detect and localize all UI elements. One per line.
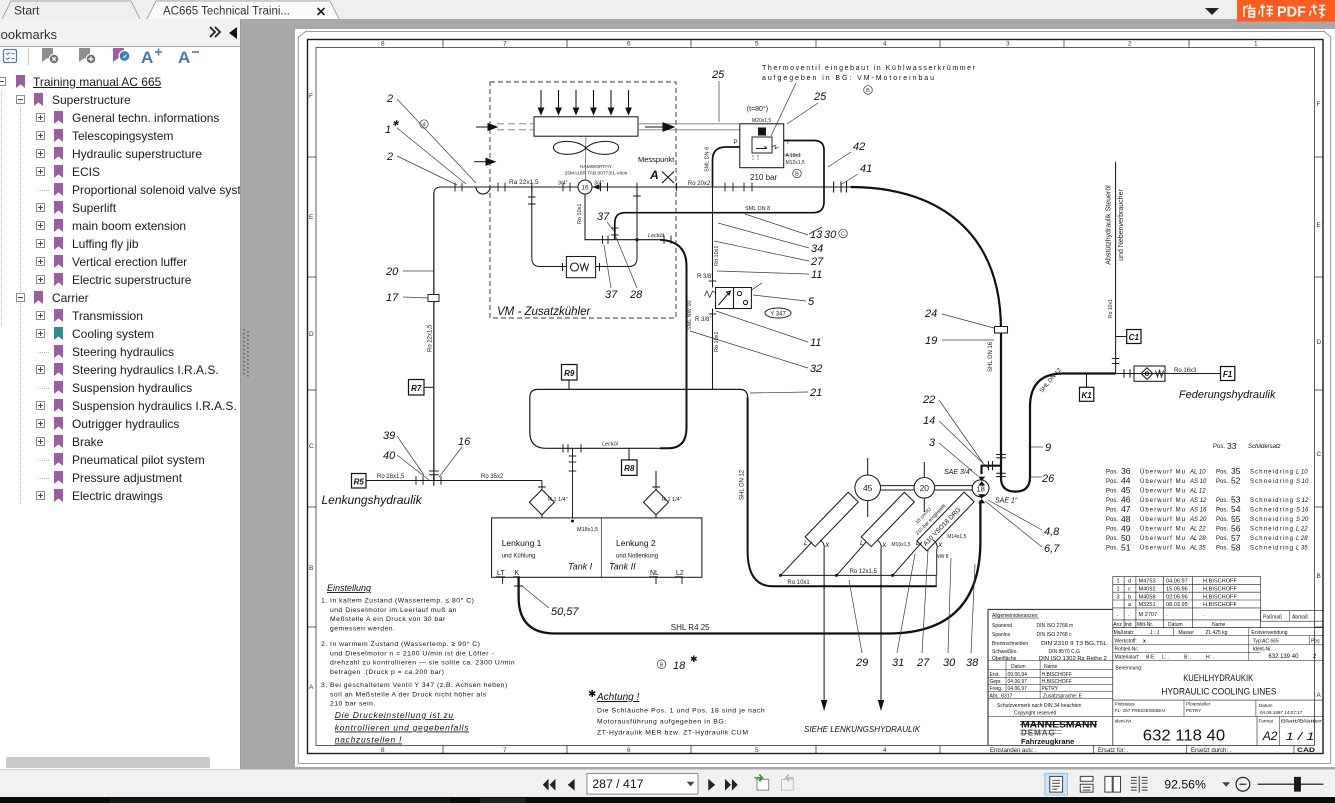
- svg-text:Pos.: Pos.: [1216, 479, 1228, 485]
- svg-text:Schneidring: Schneidring: [1250, 517, 1293, 523]
- svg-text:VM - Zusatzkühler: VM - Zusatzkühler: [497, 306, 591, 318]
- svg-text:DIN 8570 C,G: DIN 8570 C,G: [1049, 649, 1081, 655]
- svg-text:Lenkungshydraulik: Lenkungshydraulik: [322, 493, 423, 507]
- svg-text:F: F: [309, 93, 313, 100]
- svg-text:d: d: [422, 122, 425, 128]
- svg-text:Schneidring: Schneidring: [1250, 527, 1293, 533]
- svg-text:40: 40: [383, 450, 396, 462]
- svg-text:2: 2: [386, 93, 393, 105]
- svg-text:Abmaß: Abmaß: [1292, 615, 1308, 621]
- svg-text:21.425 kg: 21.425 kg: [1206, 630, 1228, 636]
- svg-text:A 10x1: A 10x1: [786, 153, 802, 159]
- svg-text:16: 16: [458, 436, 471, 448]
- label M18x1,5: [577, 527, 598, 533]
- svg-text:L2: L2: [676, 570, 684, 577]
- svg-text:Allgemeintoleranzen:: Allgemeintoleranzen:: [992, 613, 1039, 619]
- labels 13 30 C / 34 / 27 / 11 / 11 / 32 / 21: [809, 229, 837, 399]
- svg-text:Spanend: Spanend: [992, 623, 1012, 629]
- svg-text:5: 5: [755, 747, 759, 754]
- svg-text:Oberfläche: Oberfläche: [992, 656, 1017, 662]
- svg-text:Mitt-Nr.: Mitt-Nr.: [1137, 622, 1153, 628]
- svg-text:(t=80°): (t=80°): [747, 105, 768, 113]
- svg-text:R5: R5: [354, 477, 365, 486]
- svg-text:24: 24: [924, 308, 937, 320]
- fittings: [603, 228, 672, 244]
- svg-text:1: 1: [1254, 41, 1258, 48]
- filter check unit: [1134, 366, 1165, 381]
- svg-text:H.BISCHOFF: H.BISCHOFF: [1203, 579, 1237, 585]
- svg-text:D: D: [309, 331, 314, 338]
- node R7: [409, 380, 434, 396]
- svg-text:Plotstatus: Plotstatus: [1115, 702, 1136, 707]
- svg-text:3/4”: 3/4”: [558, 181, 568, 187]
- svg-text:Pos.: Pos.: [1106, 469, 1118, 475]
- svg-text:8: 8: [381, 41, 385, 48]
- svg-text:D: D: [1317, 339, 1322, 346]
- svg-text:22: 22: [922, 394, 935, 406]
- svg-text:S 10: S 10: [1296, 479, 1309, 485]
- svg-text:betragen .(Druck p = ca.200 ba: betragen .(Druck p = ca.200 bar): [330, 669, 444, 676]
- svg-text:Tank II: Tank II: [609, 562, 636, 572]
- svg-text:Zusatzsprache: E: Zusatzsprache: E: [1043, 694, 1083, 700]
- labels 22 / 14 / 3: [922, 394, 936, 449]
- svg-text:Schildersatz: Schildersatz: [1248, 444, 1281, 450]
- svg-text:Pos.: Pos.: [1216, 469, 1228, 475]
- svg-text:3: 3: [929, 437, 936, 449]
- svg-text:b: b: [1128, 594, 1131, 600]
- svg-text:LT: LT: [497, 570, 505, 577]
- svg-text:.: .: [1166, 612, 1168, 618]
- svg-text:6: 6: [627, 41, 631, 48]
- Leckoel label: [648, 233, 665, 239]
- svg-text:1. In kaltem Zustand (Wasserte: 1. In kaltem Zustand (Wassertemp. ≤ 80° …: [321, 597, 474, 605]
- fittings on main line: [455, 182, 847, 193]
- svg-text:13: 13: [810, 229, 823, 241]
- left vertical pipe: [433, 193, 435, 481]
- label SHL DN 12 rotated: [740, 469, 746, 500]
- svg-text:H.BISCHOFF: H.BISCHOFF: [1203, 587, 1237, 593]
- steering supply line: [366, 480, 542, 482]
- bottom toolbar: [0, 769, 1335, 799]
- labels 39 / 40 / 16: [383, 430, 471, 462]
- svg-text:Pos.: Pos.: [1106, 517, 1118, 523]
- circle B ref: [793, 169, 802, 178]
- format / sheet: [1262, 729, 1315, 743]
- tree: [0, 19, 240, 768]
- svg-text:54: 54: [1231, 504, 1241, 514]
- svg-text:drehzahl zu kontrollieren — si: drehzahl zu kontrollieren — sie sollte c…: [330, 660, 515, 667]
- svg-text:45: 45: [863, 483, 873, 493]
- svg-text:Überwurf Mu: Überwurf Mu: [1140, 545, 1185, 552]
- plot status row: [1115, 702, 1323, 724]
- svg-text:X: X: [881, 542, 887, 549]
- svg-text:48: 48: [1121, 514, 1131, 524]
- labels 37 / 37 / 28: [597, 211, 643, 301]
- svg-text:aufgegeben in BG: VM-Motoreinb: aufgegeben in BG: VM-Motoreinbau: [762, 75, 934, 82]
- bypass loop: [528, 187, 641, 267]
- labels 29 31 27 30 38: [855, 657, 979, 669]
- svg-text:Typ:: Typ:: [1253, 639, 1262, 645]
- svg-text:Pos.: Pos.: [1106, 508, 1118, 514]
- label SML DN 8: [745, 206, 770, 212]
- svg-text:K1: K1: [1081, 391, 1092, 400]
- SHL DN 12 hose down: [748, 397, 937, 586]
- title block texts mid column: [1114, 630, 1228, 672]
- label Ro 10x1: [787, 580, 810, 586]
- svg-text:Spanlos: Spanlos: [992, 632, 1011, 638]
- svg-text:2: 2: [1128, 41, 1132, 48]
- svg-text:Tank I: Tank I: [568, 562, 593, 572]
- svg-text:M18x1,5: M18x1,5: [577, 527, 598, 533]
- svg-text:K: K: [515, 570, 520, 577]
- pump 20: [914, 462, 935, 512]
- solenoid valve Y347: [705, 283, 763, 309]
- svg-text:M14x1,5: M14x1,5: [947, 534, 966, 540]
- svg-text:Copyright reserved: Copyright reserved: [1014, 711, 1056, 717]
- svg-text:✱: ✱: [392, 119, 400, 128]
- svg-text:3: 3: [1117, 594, 1120, 600]
- svg-text:Überwurf Mu: Überwurf Mu: [1140, 497, 1185, 504]
- svg-text:B: B: [309, 565, 313, 572]
- svg-text:53: 53: [1231, 495, 1241, 505]
- svg-text:4: 4: [883, 41, 887, 48]
- svg-text:1: 1: [1117, 579, 1120, 585]
- svg-text:und Nebenverbraucher: und Nebenverbraucher: [1118, 189, 1125, 261]
- svg-text:d: d: [1128, 579, 1131, 585]
- svg-text:Blatt/Blätter: Blatt/Blätter: [1281, 719, 1323, 724]
- union fittings at pump 18 inlet: [989, 455, 1006, 477]
- svg-text:6: 6: [627, 747, 631, 754]
- svg-text:L 28: L 28: [1296, 536, 1308, 542]
- svg-text:19: 19: [925, 335, 937, 347]
- svg-text:und Dieselmotor n = 2100 U/min: und Dieselmotor n = 2100 U/min ist die L…: [330, 650, 494, 657]
- svg-text:M 2707: M 2707: [1139, 612, 1158, 618]
- svg-text:M12x1,5: M12x1,5: [786, 160, 805, 166]
- svg-text:28: 28: [629, 289, 643, 301]
- svg-text:26: 26: [1041, 473, 1055, 485]
- svg-text:SML DN 8: SML DN 8: [745, 206, 770, 212]
- svg-text:L 35: L 35: [1296, 546, 1308, 552]
- svg-text:Achtung !: Achtung !: [596, 692, 639, 703]
- SIEHE LENKUNGSHYDRAULIK: [804, 725, 921, 734]
- svg-text:x: x: [1143, 639, 1146, 645]
- label 17 and union fitting: [386, 292, 439, 304]
- svg-text:33: 33: [1227, 441, 1237, 451]
- svg-text:R 1 1/4”: R 1 1/4”: [548, 497, 568, 503]
- svg-text:Pos.: Pos.: [1216, 527, 1228, 533]
- svg-text:Pos.: Pos.: [1216, 498, 1228, 504]
- svg-text:14: 14: [923, 415, 935, 427]
- labels Ro 28x1,5 / Ro 35x2: [377, 474, 504, 480]
- svg-text:Schneidring: Schneidring: [1250, 508, 1293, 514]
- SHL R4 25 suction hose: [519, 501, 981, 634]
- svg-text:Lecköl: Lecköl: [648, 233, 665, 239]
- labels 9 / 26 / 4,8 / 6,7: [1041, 442, 1060, 555]
- svg-text:57: 57: [1231, 533, 1241, 543]
- svg-text:2: 2: [1313, 654, 1317, 660]
- svg-text:25: 25: [711, 69, 725, 81]
- Federungshydraulik label: [1179, 389, 1276, 401]
- svg-text:41: 41: [860, 163, 872, 175]
- svg-text:B: B: [866, 88, 870, 94]
- svg-text:AC 665: AC 665: [1261, 639, 1279, 645]
- svg-text:25: 25: [813, 91, 827, 103]
- VM-Zusatzkuehler label: [497, 306, 591, 318]
- labels 2 / 1* / 2: [385, 93, 400, 163]
- svg-text:S 20: S 20: [1296, 517, 1309, 523]
- svg-text:Messpunkt: Messpunkt: [638, 155, 675, 164]
- svg-text:R 3/8”: R 3/8”: [695, 317, 711, 323]
- svg-text:H.BISCHOFF: H.BISCHOFF: [1042, 672, 1072, 678]
- tank I / tank II: [492, 518, 702, 577]
- ident number: [1143, 728, 1225, 745]
- svg-text:37: 37: [597, 211, 610, 223]
- Messpunkt A: [638, 155, 675, 183]
- svg-text:NW 8: NW 8: [936, 554, 949, 560]
- tank ports: [497, 570, 684, 577]
- document canvas: [241, 22, 1335, 769]
- Einstellung notes: [327, 583, 371, 593]
- page trim marks: [298, 31, 1331, 763]
- svg-text:29: 29: [855, 657, 868, 669]
- svg-text:Ro 10x1: Ro 10x1: [1108, 299, 1114, 318]
- svg-text:Pos.: Pos.: [1106, 527, 1118, 533]
- svg-text:27: 27: [916, 657, 930, 669]
- svg-text:HAMWORTHY: HAMWORTHY: [580, 164, 613, 170]
- svg-text:8: 8: [381, 747, 385, 754]
- svg-text:Pos.: Pos.: [1106, 498, 1118, 504]
- svg-text:04.06.97: 04.06.97: [1008, 679, 1028, 685]
- drive shafts: [881, 486, 973, 490]
- control line to Y347: [712, 187, 714, 389]
- title block frame: [988, 609, 1323, 745]
- fitting on control line: [1112, 359, 1120, 364]
- svg-text:AC665 Technical Traini...: AC665 Technical Traini...: [163, 6, 290, 18]
- cooling air arrows: [538, 90, 631, 114]
- svg-text:Abstützhydraulik Steueröl: Abstützhydraulik Steueröl: [1106, 185, 1113, 265]
- svg-text:21: 21: [809, 387, 822, 399]
- svg-text:Überwurf Mu: Überwurf Mu: [1140, 478, 1185, 485]
- svg-text:und Kühlung: und Kühlung: [502, 554, 536, 560]
- svg-text:34: 34: [811, 243, 823, 255]
- hose couplings at pump 18: [978, 477, 985, 504]
- Abstuetzhydraulik control line: [1115, 162, 1117, 374]
- svg-text:und Notlenkung: und Notlenkung: [616, 554, 658, 560]
- svg-text:✱: ✱: [588, 689, 596, 700]
- svg-text:Ro 20x2: Ro 20x2: [688, 181, 711, 187]
- svg-text:42: 42: [853, 141, 865, 153]
- svg-text:M3251: M3251: [1139, 602, 1156, 608]
- splitter grip dots: [243, 329, 245, 375]
- svg-text:56: 56: [1231, 523, 1241, 533]
- svg-text:Ind: Ind: [1125, 622, 1132, 628]
- svg-text:Pos.: Pos.: [1216, 536, 1228, 542]
- svg-text:und Dieselmotor im Leerlauf mu: und Dieselmotor im Leerlauf muß an: [330, 607, 457, 614]
- svg-text:CAD: CAD: [1297, 748, 1316, 754]
- svg-text:A: A: [309, 684, 314, 691]
- svg-text:L 10: L 10: [1296, 469, 1308, 475]
- svg-text:R7: R7: [411, 384, 422, 393]
- svg-text:X: X: [937, 542, 943, 549]
- svg-text:3. Bei geschaltetem Ventil Y 3: 3. Bei geschaltetem Ventil Y 347 (z.B. A…: [321, 682, 508, 689]
- labels 42 / 41: [853, 141, 872, 175]
- axial piston unit 1: [805, 492, 858, 546]
- svg-text:AS 10: AS 10: [1189, 479, 1207, 485]
- svg-text:4,8: 4,8: [1044, 526, 1060, 538]
- svg-text:B-E: B-E: [1146, 655, 1155, 661]
- svg-text:E: E: [309, 214, 314, 221]
- svg-text:50,57: 50,57: [551, 606, 579, 618]
- air flow arrows: [474, 123, 674, 165]
- svg-text:Ro 22x1,5: Ro 22x1,5: [428, 324, 434, 352]
- svg-text:R9: R9: [564, 369, 575, 378]
- svg-text:9: 9: [1045, 442, 1051, 454]
- svg-text:Masse:: Masse:: [1178, 630, 1194, 636]
- svg-text:Schweißko.: Schweißko.: [992, 649, 1018, 655]
- title block texts left column: [990, 613, 1108, 717]
- svg-text:210 bar sein.: 210 bar sein.: [330, 701, 376, 708]
- svg-text:Schneidring: Schneidring: [1250, 479, 1293, 485]
- thermostat valve t=80: [740, 124, 784, 168]
- svg-text:1 : 1: 1 : 1: [1150, 630, 1160, 636]
- Achtung note: [588, 689, 765, 737]
- svg-text:AL 28: AL 28: [1189, 536, 1206, 542]
- svg-text:F: F: [1317, 101, 1321, 108]
- svg-text:Die Schläuche Pos. 1 und Pos.: Die Schläuche Pos. 1 und Pos. 18 sind je…: [597, 708, 765, 715]
- svg-text:C: C: [309, 443, 314, 450]
- svg-text:Brennschneiden: Brennschneiden: [992, 641, 1028, 647]
- svg-text:Ro 12x1,5: Ro 12x1,5: [850, 569, 878, 575]
- svg-text:Ersatz für: .: Ersatz für: .: [1098, 748, 1129, 754]
- svg-text:Format: Format: [1259, 719, 1274, 724]
- label SHL R4 25: [671, 623, 710, 632]
- svg-text:2. In warmem Zustand (Wasserte: 2. In warmem Zustand (Wassertemp. ≥ 90° …: [321, 640, 480, 648]
- svg-text:A: A: [1317, 692, 1322, 699]
- svg-text:Einstellung: Einstellung: [327, 583, 371, 593]
- svg-text:Pos.: Pos.: [1216, 546, 1228, 552]
- svg-text:7: 7: [503, 41, 507, 48]
- arrowheads to steering schematic: [821, 700, 884, 711]
- svg-text:KUEHLHYDRAUKIK: KUEHLHYDRAUKIK: [1183, 673, 1253, 683]
- fan: [553, 141, 618, 154]
- label SHL DN 16: [988, 341, 994, 372]
- svg-text:632 139 40: 632 139 40: [1268, 654, 1299, 660]
- svg-text:SML DN 6: SML DN 6: [705, 147, 711, 172]
- svg-text:nachzustellen !: nachzustellen !: [335, 735, 402, 745]
- svg-text:16: 16: [581, 185, 589, 192]
- svg-text:Rohteil-Nr.:: Rohteil-Nr.:: [1115, 647, 1140, 653]
- tank return loop lines: [530, 389, 748, 448]
- svg-text:Benennung:: Benennung:: [1115, 666, 1142, 672]
- svg-text:Ident-Nr.: Ident-Nr.: [1115, 719, 1133, 724]
- svg-text:Ro 16x3: Ro 16x3: [1174, 368, 1197, 374]
- node F1: [1221, 367, 1235, 381]
- svg-text:Schneidring: Schneidring: [1250, 498, 1293, 504]
- svg-text:Name: Name: [1212, 622, 1226, 628]
- svg-text:B: B: [1317, 573, 1321, 580]
- svg-text:Start: Start: [14, 4, 40, 18]
- svg-text:Ro 10x1: Ro 10x1: [714, 246, 720, 267]
- svg-text:49: 49: [1121, 523, 1131, 533]
- svg-text:B: .: B: .: [1184, 655, 1192, 661]
- node C1: [1116, 330, 1141, 344]
- svg-text:04.06.1997 14:07:17: 04.06.1997 14:07:17: [1260, 710, 1303, 715]
- svg-text:35: 35: [1231, 466, 1241, 476]
- svg-text:M4753: M4753: [1139, 579, 1156, 585]
- svg-text:B: B: [660, 662, 664, 668]
- svg-text:04.06.97: 04.06.97: [1008, 686, 1028, 692]
- Pos. 33 Schildersatz: [1213, 441, 1281, 451]
- svg-text:3: 3: [1006, 41, 1010, 48]
- filter 2: [644, 471, 669, 518]
- svg-text:1: 1: [385, 124, 391, 136]
- svg-text:55: 55: [1231, 514, 1241, 524]
- svg-text:Lecköl: Lecköl: [602, 442, 619, 448]
- svg-text:Ra 22x1,5: Ra 22x1,5: [509, 179, 539, 186]
- svg-text:M4058: M4058: [1139, 594, 1156, 600]
- radiator type text: [565, 164, 628, 177]
- svg-text:Ro 35x2: Ro 35x2: [481, 474, 504, 480]
- svg-text:S 12: S 12: [1296, 498, 1309, 504]
- svg-text:Pos.: Pos.: [1106, 536, 1118, 542]
- svg-text:Thermoventil eingebaut in Kühl: Thermoventil eingebaut in Kühlwasserkrüm…: [762, 65, 976, 72]
- svg-text:17: 17: [386, 292, 399, 304]
- svg-text:58: 58: [1231, 542, 1241, 552]
- svg-text:C: C: [841, 232, 845, 238]
- svg-text:Pos.: Pos.: [1106, 479, 1118, 485]
- svg-text:Ro 10x1: Ro 10x1: [787, 580, 810, 586]
- svg-text:20: 20: [385, 266, 399, 278]
- svg-text:AL 10: AL 10: [1189, 469, 1206, 475]
- svg-text:.: .: [1146, 647, 1147, 653]
- svg-text:1: 1: [1117, 587, 1120, 593]
- svg-text:HYDRAULIC COOLING LINES: HYDRAULIC COOLING LINES: [1161, 687, 1276, 698]
- node K1: [1080, 374, 1094, 402]
- svg-text:AS 16: AS 16: [1189, 508, 1207, 514]
- svg-text:A2: A2: [1262, 729, 1278, 743]
- Mannesmann Demag logo: [1020, 720, 1097, 747]
- svg-text:Ro 28x1,5: Ro 28x1,5: [377, 474, 405, 480]
- radiator core: [497, 117, 740, 180]
- svg-text:S 16: S 16: [1296, 508, 1309, 514]
- svg-text:L: .: L: .: [1162, 655, 1169, 661]
- svg-text:a: a: [1128, 602, 1132, 608]
- svg-text:08.03.95: 08.03.95: [1166, 602, 1188, 608]
- svg-text:H.BISCHOFF: H.BISCHOFF: [1042, 679, 1072, 685]
- svg-text:25MA16R TAB 00773/1-Viton: 25MA16R TAB 00773/1-Viton: [565, 171, 628, 177]
- pump 16: [578, 180, 600, 194]
- svg-text:Gepr.: Gepr.: [990, 679, 1002, 685]
- svg-text:Überwurf Mu: Überwurf Mu: [1140, 526, 1185, 533]
- svg-text:gemessen werden.: gemessen werden.: [330, 625, 395, 632]
- svg-text:39: 39: [383, 430, 395, 442]
- svg-text:Ro 10x1: Ro 10x1: [577, 204, 583, 225]
- svg-text:37: 37: [605, 289, 618, 301]
- svg-text:C: C: [1317, 451, 1322, 458]
- SML DN 6 hose: [713, 147, 740, 187]
- svg-text:AL 35: AL 35: [1189, 546, 1206, 552]
- svg-text:DIN ISO 2768 m: DIN ISO 2768 m: [1037, 623, 1074, 629]
- svg-text:Anz: Anz: [1113, 622, 1122, 628]
- svg-text:Ro 10x1: Ro 10x1: [714, 332, 720, 353]
- svg-text:Schutzvermerk nach DIN 34 beac: Schutzvermerk nach DIN 34 beachten: [997, 703, 1082, 709]
- label Ro 10x1 rotated: [577, 204, 583, 225]
- svg-text:Pos.: Pos.: [1213, 444, 1225, 450]
- svg-text:SHL DN 12: SHL DN 12: [1039, 367, 1063, 394]
- labels SAE: [944, 469, 1018, 505]
- SHL DN 16 hose arc: [851, 187, 1001, 474]
- svg-text:Motorausführung aufgegeben in: Motorausführung aufgegeben in BG:: [597, 719, 727, 726]
